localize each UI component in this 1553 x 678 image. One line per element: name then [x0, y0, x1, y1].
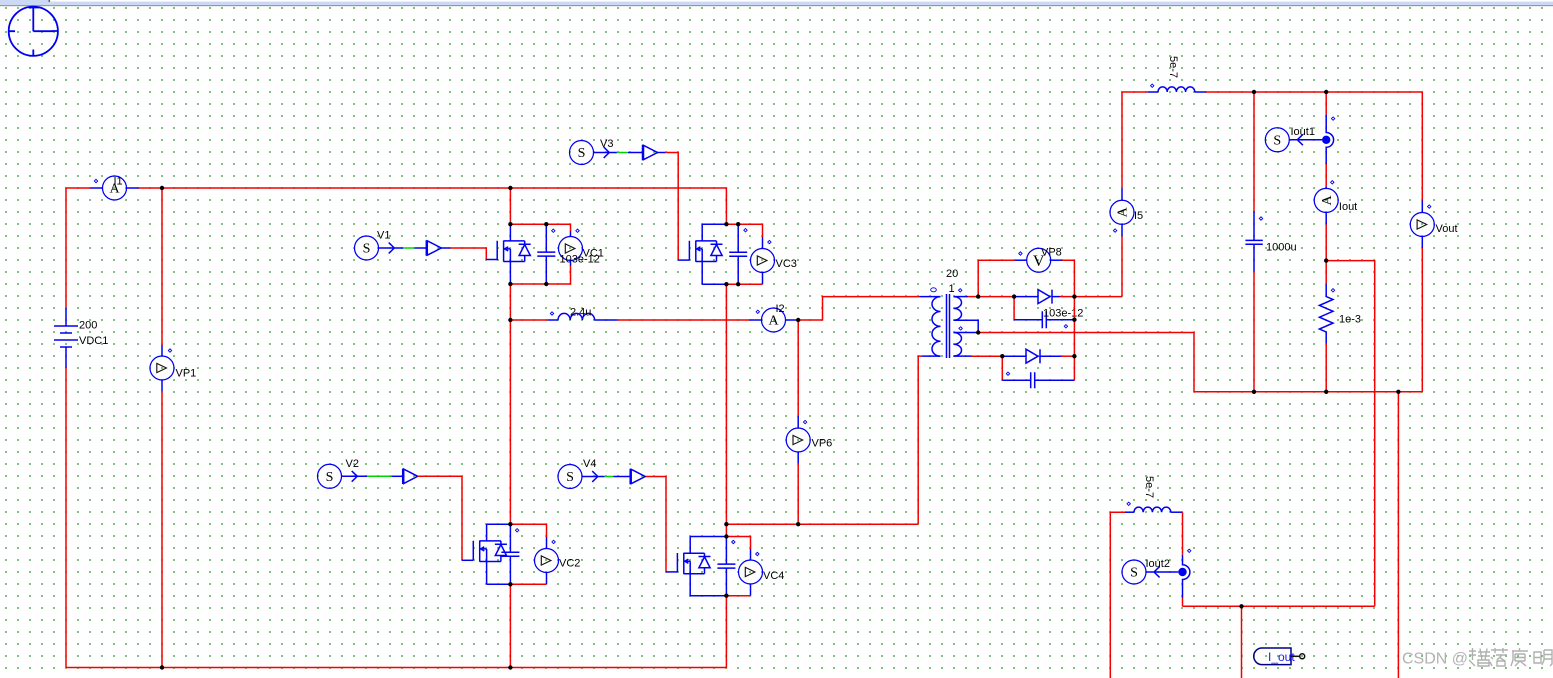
wire main positive rail — [139, 188, 727, 224]
svg-text:Iout1: Iout1 — [1291, 126, 1315, 138]
svg-text:S: S — [326, 470, 334, 485]
wire filter inductor lead right — [1195, 91, 1206, 93]
polarity marker VC2 — [552, 540, 555, 543]
wire Q4 top rail to VC4 — [726, 537, 750, 550]
wire D2 cathode lead — [1040, 355, 1061, 357]
wire Q1 source to phase node — [509, 284, 511, 320]
primary polarity dot — [931, 288, 937, 292]
wire bottom ground bus — [66, 596, 726, 668]
wire V3 to Q3 gate — [665, 153, 678, 261]
junction — [160, 665, 164, 669]
voltmeter VC3 — [751, 249, 775, 273]
svg-text:1: 1 — [949, 283, 955, 295]
wire Q2 bottom rail blue — [487, 583, 511, 585]
wire sense node to lower section — [1326, 261, 1375, 607]
mosfet Q3 — [689, 224, 722, 284]
wire V2 buffer output — [417, 475, 419, 477]
wire phase node down to Q2 — [509, 320, 511, 524]
wire output negative rail — [1194, 391, 1422, 393]
wire secondary upper to node — [968, 296, 978, 298]
wire negative rail drop — [1397, 392, 1399, 678]
wire VC3 stub bottom — [762, 273, 764, 285]
wire V3 buffer output — [658, 152, 666, 154]
svg-text:S: S — [1273, 134, 1281, 149]
wire series inductor lead right — [595, 319, 617, 321]
junction — [508, 186, 512, 190]
wire V4 to Q4 gate — [646, 477, 666, 572]
wire VP6 bottom lead — [797, 463, 799, 524]
wire lower return drop — [1241, 606, 1243, 678]
wire lower inductor lead left — [1125, 511, 1134, 513]
wire secondary upper top lead — [954, 296, 969, 298]
wire D2 anode lead — [1002, 355, 1026, 357]
wire resistor bottom lead — [1325, 343, 1327, 392]
wire A1 left to battery + — [66, 188, 91, 308]
wire V2 output with arrow — [342, 471, 368, 482]
voltmeter VC2 — [535, 549, 559, 573]
wire V4 buffer output — [644, 476, 647, 478]
svg-text:1e-3: 1e-3 — [1339, 314, 1361, 326]
wire lower secondary to D2 — [972, 355, 1003, 357]
polarity marker I1 — [94, 179, 97, 182]
wire V3 output with arrow — [594, 147, 617, 158]
capacitor Q4 snubber — [717, 537, 735, 596]
svg-text:103e-12: 103e-12 — [1043, 308, 1083, 320]
wire V2 to Q2 gate — [418, 476, 462, 560]
wire lower inductor lead right — [1171, 511, 1183, 513]
wire V2 green link — [367, 475, 391, 477]
wire A5 bottom lead — [1121, 236, 1123, 296]
ammeter I2 — [762, 308, 786, 332]
wire VP8 left leg — [978, 260, 1015, 296]
junction — [1324, 90, 1328, 94]
wire Q4 bottom rail red — [726, 595, 750, 597]
svg-text:S: S — [1130, 566, 1138, 581]
junction — [160, 186, 164, 190]
polarity marker Vout — [1428, 205, 1431, 208]
on-off controller V4 buffer — [630, 469, 645, 484]
capacitor Q3 snubber — [729, 224, 747, 284]
gating source V2 — [318, 464, 342, 488]
wire V1 link to buffer — [415, 247, 427, 249]
polarity marker VP1 — [168, 349, 171, 352]
svg-text:S: S — [566, 470, 574, 485]
junction — [724, 222, 728, 226]
svg-text:Iout2: Iout2 — [1146, 558, 1170, 570]
wire VP8 right leg — [1062, 260, 1074, 296]
wire V4 output with arrow — [582, 471, 605, 482]
svg-text:I5: I5 — [1134, 210, 1143, 222]
transformer TX1 core — [947, 294, 950, 358]
wire Iout to sense node — [1325, 224, 1327, 260]
junction — [796, 522, 800, 526]
junction — [1324, 258, 1328, 262]
svg-text:A: A — [768, 314, 779, 329]
wire primary return line — [726, 523, 918, 525]
junction — [1072, 354, 1076, 358]
wire series inductor lead left — [548, 319, 558, 321]
junction — [1252, 390, 1256, 394]
wire VC1 stub top — [570, 231, 572, 237]
wire Q3 bottom rail blue — [702, 283, 726, 285]
wire Q2 source to bus — [509, 584, 511, 667]
wire Vout stub top — [1421, 201, 1423, 213]
wire V2 link to buffer — [391, 475, 402, 477]
wire V4 link to buffer — [613, 476, 630, 478]
polarity marker Q1 cap — [552, 229, 555, 232]
wire Q2 drain rail — [487, 523, 511, 525]
wire probe wire upper — [1325, 92, 1327, 115]
svg-text:Vout: Vout — [1436, 223, 1458, 235]
polarity marker 2.4u — [550, 312, 553, 315]
wire battery negative to bottom bus — [65, 368, 67, 668]
wire A5 to filter inductor — [1122, 92, 1148, 188]
wire D1 cathode lead — [1052, 296, 1060, 298]
svg-text:I2: I2 — [776, 303, 785, 315]
polarity marker Iout2 — [1188, 549, 1191, 552]
svg-text:VC3: VC3 — [776, 258, 797, 270]
capacitor D2 snubber — [1002, 372, 1074, 388]
on-off controller V2 buffer — [403, 469, 418, 484]
junction — [508, 318, 512, 322]
wire Q3 drain rail — [702, 223, 726, 225]
wire secondary lower top lead — [954, 332, 979, 334]
wire Q1 top rail — [510, 224, 570, 231]
wire Q4 bottom rail blue — [690, 595, 726, 597]
wire lower branch left drop — [1110, 512, 1125, 678]
wire VP6 top lead — [797, 320, 799, 416]
wire probe to ammeter Iout — [1325, 164, 1327, 186]
capacitor Q2 snubber — [501, 524, 519, 584]
polarity marker D1 snubber — [1064, 325, 1067, 328]
polarity marker secondary 1 — [959, 289, 962, 292]
DC source VDC1 — [54, 308, 78, 368]
on-off controller V3 buffer — [643, 145, 658, 160]
wire V3 link to buffer — [628, 152, 643, 154]
signal tag I_out — [1254, 648, 1305, 665]
svg-text:1000u: 1000u — [1266, 242, 1297, 254]
ammeter Iout — [1314, 188, 1338, 212]
polarity marker Q3 cap — [744, 229, 747, 232]
wire Q1 drain drop — [509, 188, 511, 224]
junction — [736, 222, 740, 226]
junction — [1072, 294, 1076, 298]
wire VC1 bottom drop — [510, 266, 570, 284]
wire Q4 gate lead — [666, 571, 677, 573]
junction — [1324, 390, 1328, 394]
svg-text:Iout: Iout — [1339, 201, 1357, 213]
polarity marker I5 — [1113, 229, 1116, 232]
polarity marker VC3 — [768, 240, 771, 243]
polarity marker Q4 cap — [732, 540, 735, 543]
wire Vout stub bottom — [1421, 237, 1423, 249]
mosfet Q2 — [473, 524, 507, 584]
wire ammeter I2 leads — [750, 319, 798, 321]
gating source V3 — [570, 141, 594, 165]
wire VC2 stub top — [546, 537, 548, 549]
wire output cap bottom lead — [1253, 272, 1255, 392]
junction — [724, 594, 728, 598]
wire lower return line — [1183, 605, 1375, 607]
voltmeter VP1 — [150, 356, 174, 380]
junction — [1252, 90, 1256, 94]
wire secondary lower bottom lead — [954, 355, 972, 357]
wire D2 snubber right leg — [1073, 356, 1075, 380]
svg-text:VC2: VC2 — [559, 558, 580, 570]
junction — [724, 522, 728, 526]
wire output cap top lead — [1253, 92, 1255, 211]
wire Q3 bottom rail red — [726, 283, 762, 285]
polarity marker 1000u — [1259, 217, 1262, 220]
ammeter I5 — [1110, 200, 1134, 224]
wire D2 cathode to node — [1061, 355, 1074, 357]
voltmeter VC1 — [559, 237, 583, 261]
capacitor Q1 snubber — [537, 224, 555, 284]
polarity marker VP6 — [803, 420, 806, 423]
wire V3 green link — [617, 152, 628, 154]
voltmeter Vout — [1410, 213, 1434, 237]
wire V1 green link — [403, 247, 415, 249]
inductor 5e-7 lower — [1134, 507, 1171, 512]
wire inductor to ammeter I2 — [617, 319, 750, 321]
wire D1 snubber left leg — [1013, 297, 1015, 320]
svg-text:103e-12: 103e-12 — [560, 254, 600, 266]
svg-text:5e-7: 5e-7 — [1143, 476, 1155, 498]
diode D1 — [1038, 290, 1052, 304]
svg-text:200: 200 — [79, 320, 97, 332]
wire Q1 gate lead — [486, 259, 497, 261]
wire VP6 stub top — [797, 416, 799, 428]
svg-text:I1: I1 — [114, 176, 123, 188]
svg-text:VC4: VC4 — [763, 570, 784, 582]
wire VP6 stub bottom — [797, 452, 799, 463]
junction — [544, 282, 548, 286]
polarity marker 5e-7 upper — [1151, 84, 1154, 87]
wire Vout to negative rail — [1421, 248, 1423, 392]
polarity marker 5e-7 lower — [1127, 502, 1130, 505]
polarity marker Q2 cap — [515, 529, 518, 532]
junction — [508, 665, 512, 669]
wire primary bottom lead — [922, 355, 941, 357]
svg-text:5e-7: 5e-7 — [1167, 56, 1179, 78]
svg-text:VP8: VP8 — [1041, 247, 1062, 259]
wire output positive rail — [1206, 92, 1422, 201]
wire rectifier output to A5 — [1074, 296, 1122, 298]
svg-text:S: S — [363, 242, 371, 257]
polarity marker I2 — [756, 310, 759, 313]
wire filter inductor lead left — [1148, 91, 1158, 93]
junction — [1072, 318, 1076, 322]
wire D1 anode lead — [1014, 296, 1038, 298]
svg-text:S: S — [578, 146, 586, 161]
wire phase to series inductor — [510, 319, 548, 321]
mosfet Q1 — [497, 224, 531, 284]
transformer primary winding — [932, 297, 941, 357]
wire primary return riser — [918, 356, 922, 524]
wire Iout stub bottom — [1325, 212, 1327, 224]
wire primary top lead — [920, 296, 941, 298]
wire center tap line — [978, 333, 1194, 392]
wire VC3 stub top — [762, 237, 764, 249]
wire Iout stub top — [1325, 186, 1327, 188]
polarity marker 1e-3 — [1331, 289, 1334, 292]
wire resistor top lead — [1325, 261, 1327, 285]
capacitor D1 snubber 103e-12 — [1014, 311, 1074, 328]
wire Q4 drain rail — [690, 536, 726, 538]
capacitor 1000u — [1245, 211, 1262, 272]
svg-text:VDC1: VDC1 — [79, 335, 108, 347]
on-off controller V1 buffer — [426, 240, 441, 255]
junction — [1000, 354, 1004, 358]
junction — [1012, 294, 1016, 298]
polarity marker VC1 — [576, 229, 579, 232]
svg-text:VP1: VP1 — [176, 368, 197, 380]
wire lower inductor to probe — [1182, 512, 1184, 555]
junction — [976, 330, 980, 334]
polarity marker D2 snubber — [1006, 372, 1009, 375]
wire Q2 top rail to VC2 — [510, 524, 546, 537]
wire VP1 to bottom bus — [161, 391, 163, 668]
wire Iout2 probe link with arrow — [1146, 567, 1178, 578]
gating source V4 — [558, 465, 582, 489]
wire VC1 stub bottom — [570, 261, 572, 267]
junction — [796, 318, 800, 322]
gating source V1 — [355, 236, 379, 260]
voltmeter VP6 — [786, 428, 810, 452]
svg-text:V1: V1 — [377, 230, 390, 242]
junction — [508, 282, 512, 286]
wire Q3 top rail to VC3 — [726, 224, 762, 237]
simulation clock icon — [9, 7, 58, 56]
wire VP1 stub bottom — [161, 380, 163, 391]
wire ammeter I1 leads — [91, 187, 139, 189]
wire probe to return line — [1182, 598, 1184, 606]
junction — [1396, 390, 1400, 394]
svg-text:V3: V3 — [600, 138, 613, 150]
wire V1 output with arrow — [379, 243, 404, 254]
svg-text:2.4u: 2.4u — [570, 307, 591, 319]
wire D1 cathode to node — [1060, 296, 1074, 298]
wire V4 green link — [605, 476, 614, 478]
svg-text:A: A — [1116, 206, 1131, 217]
polarity marker Iout1 — [1331, 117, 1334, 120]
wire VC4 stub bottom — [750, 584, 752, 596]
wire VP1 stub top — [161, 345, 163, 356]
wire D1 snubber right leg — [1073, 297, 1075, 320]
wire Q2 bottom rail red — [510, 583, 546, 585]
watermark CSDN — [1402, 651, 1468, 668]
wire Q4 junction drop — [725, 524, 727, 536]
resistor 1e-3 — [1319, 284, 1333, 343]
window title bar strip — [0, 0, 1553, 6]
ammeter I1 — [103, 176, 127, 200]
svg-text:V2: V2 — [346, 458, 359, 470]
wire A5 stub bottom — [1121, 224, 1123, 236]
wire A5 stub top — [1121, 188, 1123, 200]
svg-text:A: A — [1320, 194, 1335, 205]
junction — [724, 534, 728, 538]
junction — [508, 222, 512, 226]
polarity marker Iout — [1331, 181, 1334, 184]
wire VP8 stub left — [1015, 259, 1027, 261]
current probe hook Iout1 — [1326, 115, 1333, 164]
wire cathode bus down — [1073, 320, 1075, 357]
wire secondary upper bottom lead — [954, 320, 979, 332]
voltmeter VP8 — [1027, 248, 1051, 272]
wire Q3 gate lead — [678, 259, 689, 261]
voltmeter VC4 — [739, 560, 763, 584]
current probe dot Iout1 — [1322, 136, 1330, 144]
junction — [976, 294, 980, 298]
polarity marker VC4 — [756, 552, 759, 555]
inductor 5e-7 upper — [1158, 87, 1195, 92]
junction — [544, 222, 548, 226]
junction — [508, 522, 512, 526]
junction — [1239, 604, 1243, 608]
diode D2 — [1026, 349, 1040, 363]
wire VP8 stub right — [1051, 259, 1063, 261]
wire VP1 top lead — [161, 188, 163, 345]
watermark hanzi — [1469, 648, 1552, 666]
polarity marker VP8 — [1019, 252, 1022, 255]
inductor 2.4u — [558, 313, 595, 320]
junction — [508, 582, 512, 586]
wire Iout1 probe link with arrow — [1289, 134, 1322, 145]
wire VC4 stub top — [750, 549, 752, 560]
transformer secondary winding upper — [954, 297, 962, 321]
wire Q3 source down — [725, 284, 727, 524]
current probe hook Iout2 — [1183, 555, 1190, 598]
wire I2 to primary top — [798, 297, 919, 320]
polarity marker secondary 2 — [959, 327, 962, 330]
current sensor Iout1 — [1265, 128, 1289, 152]
current probe dot Iout2 — [1178, 568, 1186, 576]
wire D2 snubber left leg — [1001, 356, 1003, 380]
svg-text:20: 20 — [946, 268, 958, 280]
transformer secondary winding lower — [954, 333, 962, 357]
svg-text:CSDN @: CSDN @ — [1402, 651, 1468, 668]
wire Q2 gate lead — [462, 559, 473, 561]
current sensor Iout2 — [1122, 560, 1146, 584]
wire VC2 stub bottom — [546, 573, 548, 585]
junction — [736, 282, 740, 286]
svg-text:V4: V4 — [583, 458, 596, 470]
mosfet Q4 — [677, 537, 710, 597]
wire V1 to Q1 gate — [450, 248, 486, 260]
wire upper secondary to D1 — [978, 296, 1014, 298]
junction — [724, 282, 728, 286]
svg-text:VP6: VP6 — [812, 438, 833, 450]
wire V1 buffer output — [441, 247, 450, 249]
